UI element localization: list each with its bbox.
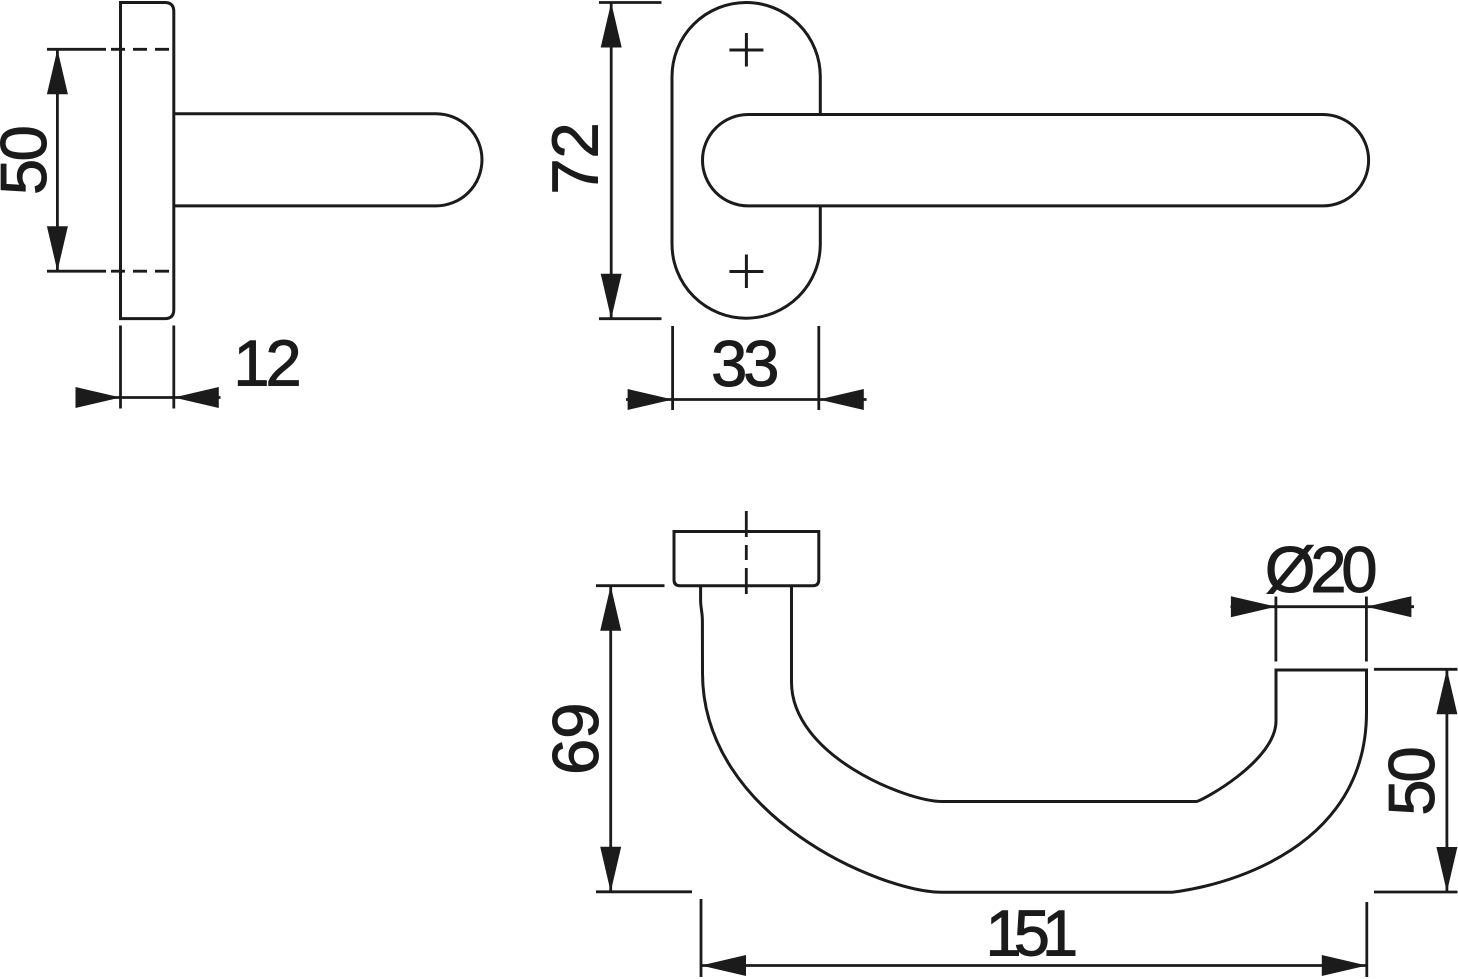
- dim 33 line: [626, 398, 867, 401]
- dim 72 extension lines: [599, 3, 662, 319]
- dashed screw hole line bottom: [104, 270, 173, 273]
- dim d20 line: [1231, 605, 1415, 608]
- svg-text:33: 33: [711, 327, 779, 400]
- dim 33 arrows (outside): [628, 389, 864, 410]
- dim 151 line: [701, 964, 1367, 967]
- dim 50r extension lines: [1374, 669, 1458, 892]
- lever bar (side): [174, 114, 482, 206]
- dim 50 extension lines: [47, 49, 106, 271]
- dim d20 arrows (outside): [1231, 596, 1412, 617]
- svg-text:151: 151: [985, 897, 1078, 970]
- dim d20 extension lines: [1276, 597, 1367, 662]
- dim 69 extension lines: [596, 586, 692, 892]
- dim 12 line: [76, 396, 221, 399]
- lever outline (plan): [701, 586, 1367, 893]
- dim 151 arrows: [701, 955, 1367, 976]
- dim 50r arrows: [1436, 669, 1457, 892]
- oval rosette: [672, 3, 820, 319]
- svg-text:72: 72: [538, 122, 611, 194]
- lever bar (front) white-filled to hide oval edge: [702, 115, 1368, 206]
- hub dashed centerline: [745, 511, 748, 595]
- svg-text:50: 50: [0, 125, 60, 195]
- screw cross bottom: [729, 255, 763, 289]
- screw cross top: [729, 33, 763, 67]
- svg-text:50: 50: [1375, 746, 1448, 815]
- dim 69 line: [609, 586, 612, 892]
- dim 33 extension lines: [673, 326, 819, 410]
- dim 12 extension lines: [121, 326, 174, 409]
- dim 50 arrows: [47, 49, 68, 271]
- dashed screw hole line top: [104, 48, 173, 51]
- dim 69 arrows: [600, 586, 621, 892]
- dim 72 arrows: [601, 3, 622, 319]
- svg-text:12: 12: [233, 327, 301, 400]
- svg-text:Ø20: Ø20: [1265, 533, 1378, 606]
- dim 72 line: [610, 3, 613, 319]
- dim 12 arrows (outside): [76, 387, 219, 408]
- svg-text:69: 69: [539, 703, 612, 775]
- hub block: [674, 532, 819, 586]
- dim 151 extension lines: [701, 899, 1367, 977]
- dim 50 line: [56, 49, 59, 271]
- dim 50r line: [1446, 669, 1449, 892]
- rosette plate (side): [121, 3, 174, 319]
